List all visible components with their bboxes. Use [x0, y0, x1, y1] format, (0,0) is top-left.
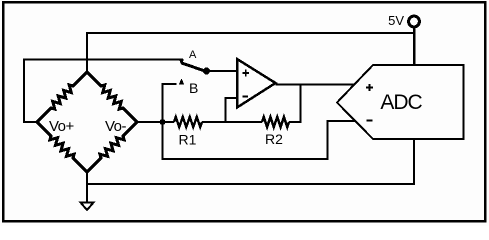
- svg-text:R1: R1: [179, 132, 197, 148]
- node junction dot: [160, 119, 166, 125]
- ADC plus sign: [366, 84, 373, 91]
- wire left loop to switch contact A: [24, 60, 183, 123]
- ADC minus sign: [367, 120, 373, 122]
- resistor R2: [262, 117, 289, 127]
- ADC U2: [337, 65, 464, 139]
- svg-text:B: B: [189, 80, 198, 96]
- op-amp plus sign: [243, 70, 250, 77]
- wire bridge top stub: [86, 32, 88, 73]
- wire op-amp inverting branch: [226, 98, 238, 122]
- bridge resistor top-right: [87, 72, 137, 122]
- svg-text:Vo+: Vo+: [49, 118, 75, 135]
- wire ground rail: [87, 139, 414, 185]
- wire 5V rail: [87, 32, 414, 34]
- op-amp minus sign: [243, 96, 249, 98]
- wire node B net to ADC minus: [163, 84, 357, 159]
- svg-text:ADC: ADC: [380, 91, 422, 114]
- resistor R1: [174, 117, 202, 127]
- svg-text:A: A: [189, 49, 197, 61]
- wire R2 to feedback: [289, 85, 301, 123]
- wire Vo- to node: [137, 121, 174, 123]
- wire R1 to R2: [202, 121, 262, 123]
- svg-text:Vo-: Vo-: [105, 118, 127, 135]
- wire switch to op-amp: [207, 70, 238, 72]
- svg-text:5V: 5V: [388, 13, 404, 28]
- switch contact B: [179, 79, 184, 85]
- switch arm: [182, 63, 207, 72]
- svg-text:R2: R2: [265, 131, 283, 147]
- terminal 5V: [409, 16, 420, 27]
- wire 5V to ADC: [413, 27, 416, 66]
- wire bridge bottom to ground: [86, 171, 88, 203]
- bridge resistor bottom-right: [87, 122, 137, 172]
- op-amp U1: [237, 59, 276, 108]
- bridge resistor bottom-left: [37, 122, 87, 172]
- switch contact A: [179, 60, 184, 66]
- switch common node: [203, 68, 210, 75]
- wire op-amp output to ADC plus: [276, 84, 356, 86]
- bridge resistor top-left: [37, 72, 87, 122]
- ground: [81, 203, 94, 211]
